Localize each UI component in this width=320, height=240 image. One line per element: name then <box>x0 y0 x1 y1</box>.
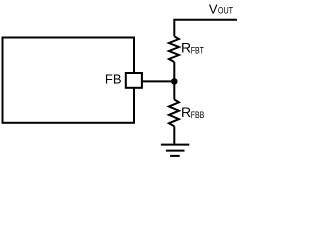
svg-text:V: V <box>209 1 218 16</box>
ground <box>161 145 189 156</box>
resistor RFBT <box>169 36 179 62</box>
svg-text:FB: FB <box>105 72 122 87</box>
svg-text:FBT: FBT <box>191 46 204 56</box>
wire RFBB to ground <box>173 126 175 144</box>
svg-text:R: R <box>181 104 191 120</box>
svg-text:OUT: OUT <box>218 6 233 16</box>
wire node to RFBB <box>173 81 175 99</box>
wire RFBT to node <box>173 62 175 81</box>
svg-text:R: R <box>181 39 191 55</box>
svg-text:FBB: FBB <box>191 110 205 120</box>
wire VOUT top <box>174 20 237 37</box>
regulator block U1 <box>3 38 135 123</box>
resistor RFBB <box>169 100 179 127</box>
node FB junction dot <box>171 78 178 85</box>
wire FB to node <box>142 80 174 82</box>
FB pin square <box>126 73 142 88</box>
